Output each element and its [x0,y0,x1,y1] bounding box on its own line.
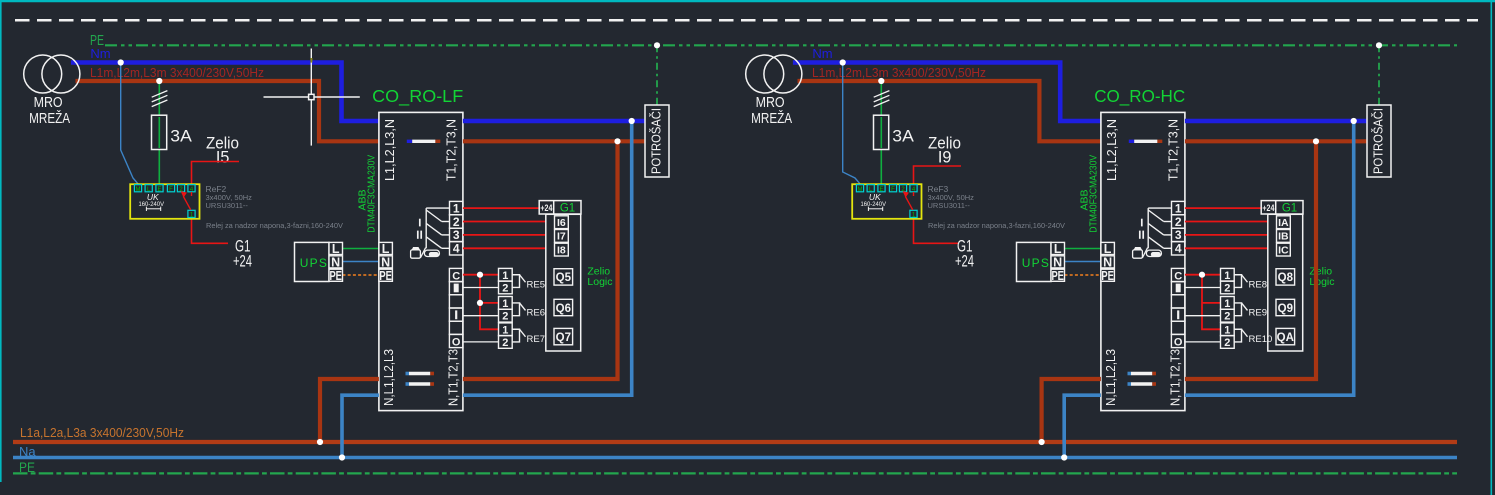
wire brown drop to L1a bus (LF) [320,379,379,442]
svg-text:L: L [1054,242,1062,256]
wire switch-2 to I6 red (LF) [463,221,547,223]
UK contact arm red (HC) [904,192,914,210]
svg-text:O: O [1174,337,1183,349]
wire UPS N blue (LF) [343,261,379,263]
wire Nm blue feeder (LF) [71,63,379,122]
svg-text:O: O [452,337,461,349]
fuse 3A (HC) [874,115,889,149]
node on L1m bus (HC) [878,78,884,84]
wire N sense thin blue (LF) [121,63,139,185]
svg-text:IB: IB [1278,231,1289,243]
svg-text:Logic: Logic [1309,276,1334,288]
wire T output brown to consumers (LF) [463,139,647,143]
contactor box (LF) [379,112,463,410]
svg-text:RE6: RE6 [527,307,545,318]
svg-text:N,T1,T2,T3: N,T1,T2,T3 [446,349,461,406]
wire phase sense green (HC) [880,81,882,184]
wire blue wrap to bypass (HC) [1185,121,1354,395]
svg-text:Q5: Q5 [556,272,572,284]
svg-text:1: 1 [502,270,508,282]
wire PE drop dashed green (LF) [656,45,658,105]
wire returns to coils (white) (LF) [463,288,499,342]
UK top terminals (HC) [856,185,917,192]
Zelio inputs I6,I7,I8 (LF) [555,216,569,256]
svg-text:I7: I7 [557,231,566,243]
node PE drop (LF) [654,42,660,48]
svg-text:L1m,L2m,L3m 3x400/230V,50Hz: L1m,L2m,L3m 3x400/230V,50Hz [812,65,986,80]
svg-text:1: 1 [1224,270,1230,282]
svg-text:4: 4 [1175,242,1182,256]
UK top terminals (LF) [134,185,195,192]
svg-text:RE8: RE8 [1249,279,1267,290]
svg-text:2: 2 [1175,215,1182,229]
svg-text:1: 1 [502,324,508,336]
viewport border left (cyan) [0,0,2,482]
UK dimension mark (HC) [868,207,882,211]
svg-text:I8: I8 [557,244,566,256]
svg-text:L1,L2,L3,N: L1,L2,L3,N [1104,119,1119,181]
svg-text:PE: PE [379,269,392,283]
red daisy chain from C (HC) [1185,275,1221,330]
svg-text:3: 3 [453,228,460,242]
UK bottom terminal (LF) [188,210,195,218]
svg-text:Relej za nadzor napona,3-fazni: Relej za nadzor napona,3-fazni,160-240V [206,221,343,230]
svg-text:1: 1 [1175,201,1182,215]
wire red relay output to I5 (LF) [192,162,240,185]
wire switch-3 to I7 red (LF) [463,234,547,236]
svg-text:L1m,L2m,L3m 3x400/230V,50Hz: L1m,L2m,L3m 3x400/230V,50Hz [90,65,264,80]
contactor terminals L N PE (HC) [1101,242,1115,281]
wire UPS N blue (HC) [1065,261,1101,263]
contactor bypass bars bottom (HC) [1128,374,1157,385]
svg-text:2: 2 [1224,282,1230,294]
svg-text:N,L1,L2,L3: N,L1,L2,L3 [381,349,396,406]
three-phase hash marks (HC) [874,91,890,107]
wire switch-2 to IA red (HC) [1185,221,1269,223]
cursor xor artifact on blue bus [310,58,312,63]
svg-text:I6: I6 [557,217,566,229]
node on Nm bus (HC) [840,59,846,65]
svg-text:Q9: Q9 [1278,303,1293,315]
wire blue drop to Na bus (HC) [1064,395,1101,457]
wire: top reference dashed line (white) [15,19,1478,22]
svg-text:2: 2 [502,311,508,323]
svg-text:MRO: MRO [756,94,785,111]
UK bottom terminal (HC) [910,210,917,218]
svg-text:POTROŠAČI: POTROŠAČI [649,108,664,174]
three-phase hash marks (LF) [152,91,168,107]
red daisy chain from C (LF) [463,275,499,330]
node daisy junction 1 (LF) [477,272,483,278]
svg-text:+24: +24 [233,251,252,270]
wire switch-1 to +24 red (HC) [1185,207,1261,209]
svg-text:3: 3 [1175,228,1182,242]
wire brown drop to L1a bus (HC) [1042,379,1101,442]
contactor bypass bars bottom (LF) [406,374,435,385]
svg-text:IC: IC [1278,244,1289,256]
svg-text:N,L1,L2,L3: N,L1,L2,L3 [1103,349,1118,406]
relay coil RE7 (LF) [499,323,526,348]
voltage relay UK body (yellow) (HC) [852,184,921,219]
svg-text:URSU3011--: URSU3011-- [206,201,249,210]
svg-text:2: 2 [502,282,508,294]
cursor crosshair vertical [310,49,312,146]
contactor box (HC) [1101,112,1185,410]
UPS box (HC) [1017,242,1052,281]
switch common pole line (HC) [1148,208,1171,248]
wire phase sense green (LF) [158,81,160,184]
wire L1m brown feeder (HC) [798,81,1101,141]
wire switch-3 to IB red (HC) [1185,234,1269,236]
svg-text:URSU3011--: URSU3011-- [928,201,971,210]
switch pole terminals 1-4 (HC) [1172,201,1185,255]
net Na bottom bus (blue) [13,456,1457,460]
svg-text:F: F [169,187,173,193]
node on L1m bus (LF) [156,78,162,84]
svg-text:2: 2 [1224,337,1230,349]
svg-text:PE: PE [329,269,342,283]
wire switch-1 to +24 red (LF) [463,207,539,209]
svg-text:RE9: RE9 [1249,307,1267,318]
node blue drop on Na bus (LF) [339,454,345,460]
svg-text:3A: 3A [892,127,914,146]
wire blue wrap to bypass (LF) [463,121,632,395]
wire PE drop dashed green (HC) [1378,45,1380,105]
relay coil RE9 (HC) [1221,297,1248,323]
svg-text:Relej za nadzor napona,3-fazni: Relej za nadzor napona,3-fazni,160-240V [928,221,1065,230]
svg-text:Logic: Logic [587,276,612,288]
svg-text:M: M [136,187,141,193]
svg-text:+24: +24 [540,203,553,214]
switch linkage dashes (LF) [418,219,421,239]
wire N sense thin blue (HC) [843,63,861,185]
svg-text:L1a,L2a,L3a 3x400/230V,50Hz: L1a,L2a,L3a 3x400/230V,50Hz [20,425,184,440]
fuse wire inside (HC) [880,117,882,148]
consumers box POTROSACI (LF) [645,105,669,177]
svg-text:I9: I9 [938,149,952,167]
svg-text:Nm: Nm [90,46,110,61]
svg-text:Nm: Nm [812,46,832,61]
svg-text:+24: +24 [1262,203,1275,214]
svg-text:T1,T2,T3,N: T1,T2,T3,N [1165,119,1180,181]
wire Nm blue feeder (HC) [793,63,1101,122]
svg-text:N: N [1103,255,1112,269]
UPS box (LF) [295,242,330,281]
svg-text:IA: IA [1278,217,1289,229]
svg-text:G1: G1 [1282,203,1297,215]
node daisy junction 2 (LF) [477,300,483,306]
svg-text:CO_RO-HC: CO_RO-HC [1094,86,1185,107]
UK dimension mark (LF) [146,207,160,211]
UK contact arm red (LF) [182,192,192,210]
wire switch-4 to IC red (HC) [1185,247,1269,249]
control terminals C/I/O column (LF) [449,268,463,347]
wire UPS PE orange dashed (HC) [1065,274,1101,276]
svg-text:F: F [891,187,895,193]
svg-text:2: 2 [1224,311,1230,323]
svg-text:Q7: Q7 [556,332,571,344]
actuator icon (LF) [411,248,440,258]
net L1a bottom bus (brown) [13,440,1457,444]
wire red relay output to I9 (HC) [914,166,962,184]
svg-text:MREŽA: MREŽA [751,110,792,127]
wire T output blue to consumers (HC) [1185,119,1369,124]
relay coil RE5 (LF) [499,268,526,293]
svg-text:POTROŠAČI: POTROŠAČI [1371,108,1386,174]
node brown wrap junction (LF) [614,138,620,144]
svg-text:2: 2 [502,337,508,349]
UPS terminals L N PE (LF) [329,242,343,281]
node PE drop (HC) [1376,42,1382,48]
wire red relay common to G1 (HC) [914,219,959,244]
svg-text:L: L [1104,242,1112,256]
wire brown wrap to bypass (LF) [463,141,618,379]
svg-text:+24: +24 [955,251,974,270]
svg-text:PE: PE [1101,269,1114,283]
fuse 3A (LF) [152,115,167,149]
net PE top bus (green dash-dot) [105,44,1457,46]
connector +24 / G1 box (LF) [539,201,581,215]
svg-text:MRO: MRO [34,94,63,111]
relay coil RE8 (HC) [1221,268,1248,293]
switch blades (HC) [1148,210,1171,248]
wire T output brown to consumers (HC) [1185,139,1369,143]
svg-text:I5: I5 [216,149,230,167]
svg-text:C: C [452,270,460,282]
svg-text:T1,T2,T3,N: T1,T2,T3,N [443,119,458,181]
wire blue drop to Na bus (LF) [342,395,379,457]
node blue wrap junction (LF) [629,118,635,124]
svg-text:Q6: Q6 [556,303,571,315]
svg-text:RE5: RE5 [527,279,545,290]
label Zelio Logic (LF) [587,266,612,288]
fuse wire inside (LF) [158,117,160,148]
label Zelio Logic (HC) [1309,266,1334,288]
Zelio outputs Q8,Q9,QA (HC) [1276,269,1295,345]
svg-text:4: 4 [453,242,460,256]
transformer MRO (LF) [24,55,80,93]
contactor bridge bar top (HC) [1129,140,1163,143]
svg-text:RE7: RE7 [527,334,545,345]
UPS terminals L N PE (HC) [1051,242,1065,281]
wire UPS L green (HC) [1065,248,1101,250]
control terminals C/I/O column (HC) [1171,268,1185,347]
svg-text:N: N [1053,255,1062,269]
node on Nm bus (LF) [118,59,124,65]
svg-text:DTM40F3CMA230V: DTM40F3CMA230V [1087,155,1099,233]
net PE bottom bus (green dashed) [13,472,1457,474]
wire T output blue to consumers (LF) [463,119,647,124]
node brown drop on L1a bus (HC) [1039,439,1045,445]
node brown drop on L1a bus (LF) [317,439,323,445]
cursor crosshair horizontal [264,96,360,98]
svg-text:Q8: Q8 [1278,272,1294,284]
wire L1m brown feeder (LF) [76,81,379,141]
svg-text:N: N [331,255,340,269]
svg-text:L: L [382,242,390,256]
voltage relay UK body (yellow) (LF) [130,184,199,219]
svg-text:1: 1 [1224,324,1230,336]
wire brown wrap to bypass (HC) [1185,141,1316,379]
svg-text:1: 1 [1224,298,1230,310]
svg-text:PE: PE [1051,269,1064,283]
wire UPS L green (LF) [343,248,379,250]
svg-text:MREŽA: MREŽA [29,110,70,127]
svg-text:DTM40F3CMA230V: DTM40F3CMA230V [365,155,377,233]
svg-text:1: 1 [502,298,508,310]
cursor pick box [309,94,314,99]
Zelio inputs IA,IB,IC (HC) [1277,216,1291,256]
svg-text:L1,L2,L3,N: L1,L2,L3,N [382,119,397,181]
svg-text:N: N [381,255,390,269]
node blue wrap junction (HC) [1351,118,1357,124]
switch linkage dashes (HC) [1140,219,1143,239]
wire returns to coils (white) (HC) [1185,288,1221,342]
wire UPS PE orange dashed (LF) [343,274,379,276]
actuator icon (HC) [1133,248,1162,258]
Zelio logic module box (HC) [1268,214,1303,351]
switch pole terminals 1-4 (LF) [450,201,463,255]
contactor bridge bar top (LF) [407,140,441,143]
Zelio outputs Q5,Q6,Q7 (LF) [554,269,573,345]
Zelio logic module box (LF) [546,214,581,351]
contactor terminals L N PE (LF) [379,242,393,281]
consumers box POTROSACI (HC) [1367,105,1391,177]
svg-text:1: 1 [453,201,460,215]
wire red relay common to G1 (LF) [192,219,229,244]
node brown wrap junction (HC) [1313,138,1319,144]
svg-text:N,T1,T2,T3: N,T1,T2,T3 [1168,349,1183,406]
svg-text:UPS: UPS [300,256,328,270]
svg-text:M: M [858,187,863,193]
switch blades (LF) [426,210,449,248]
node blue drop on Na bus (HC) [1061,454,1067,460]
node daisy junction 1 (HC) [1199,272,1205,278]
svg-text:CO_RO-LF: CO_RO-LF [372,86,463,107]
svg-text:G1: G1 [560,203,575,215]
relay coil RE10 (HC) [1221,323,1248,348]
svg-text:RE10: RE10 [1249,334,1273,345]
viewport border right (cyan) [1490,0,1492,495]
svg-text:2: 2 [453,215,460,229]
connector +24 / G1 box (HC) [1261,201,1303,215]
relay coil RE6 (LF) [499,297,526,323]
svg-text:UPS: UPS [1022,256,1050,270]
switch common pole line (LF) [426,208,449,248]
viewport border top (cyan) [0,0,1495,2]
transformer MRO (HC) [746,55,802,93]
svg-text:L: L [332,242,340,256]
svg-text:3A: 3A [170,127,192,146]
wire switch-4 to I8 red (LF) [463,247,547,249]
svg-text:QA: QA [1277,332,1294,344]
svg-text:C: C [1174,270,1182,282]
